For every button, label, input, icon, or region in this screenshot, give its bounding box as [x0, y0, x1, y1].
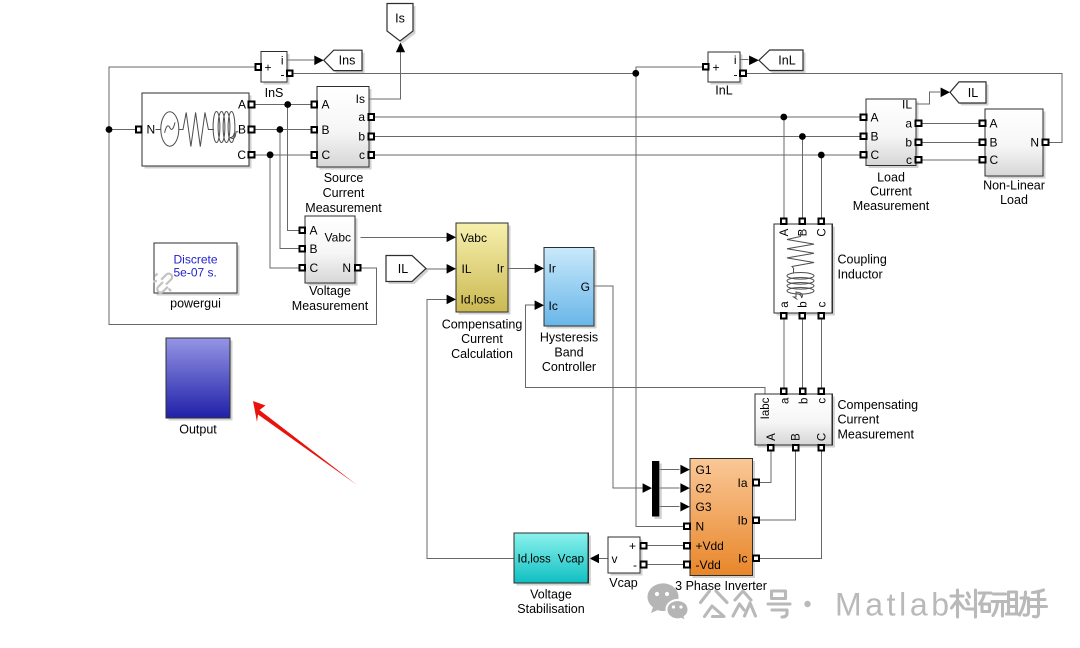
block Source Current Measurement: [317, 87, 372, 170]
svg-text:b: b: [798, 398, 810, 404]
svg-text:a: a: [779, 301, 791, 308]
svg-text:Is: Is: [356, 92, 365, 106]
wire inverter Ic up to CCM C: [759, 451, 822, 559]
watermark Matlab: [835, 587, 953, 623]
arrowhead Hysteresis Ic: [535, 300, 544, 310]
port square NLL A: [980, 121, 986, 127]
svg-text:Voltage: Voltage: [530, 588, 572, 602]
svg-text:IL: IL: [968, 86, 978, 100]
wire Coupling Inductor b down to CCM b: [801, 318, 803, 388]
label InL: [715, 83, 732, 97]
arrowhead demux input: [643, 483, 652, 493]
wire Coupling Inductor a down to CCM a: [783, 318, 785, 388]
port square inverter Ib: [753, 517, 759, 523]
port square inverter Ia: [753, 480, 759, 486]
label Hysteresis Band Controller: [540, 331, 598, 374]
port square Coupling A: [781, 218, 787, 224]
watermark wechat icon: [648, 583, 689, 621]
port square inverter Ic: [753, 556, 759, 562]
svg-text:c: c: [816, 398, 828, 404]
arrowhead IL goto tag: [941, 88, 950, 98]
svg-text:Ib: Ib: [737, 514, 747, 528]
Coupling Inductor internal resistor (vertical zigzag): [787, 232, 814, 269]
wire phase B: source B to Source Current Measurement B: [254, 129, 314, 131]
svg-text:Vcap: Vcap: [609, 576, 638, 590]
junction phase b drop: [799, 133, 806, 140]
port square InL -: [740, 70, 746, 76]
svg-text:Hysteresis: Hysteresis: [540, 331, 598, 345]
svg-text:Ins: Ins: [339, 54, 356, 68]
svg-text:G3: G3: [696, 500, 712, 514]
port square LCM b: [916, 140, 922, 146]
svg-text:c: c: [906, 153, 912, 167]
svg-text:-: -: [734, 67, 738, 81]
wire LCM c to Non-Linear Load C: [921, 159, 979, 161]
wire Vcap - to inverter -Vdd: [646, 564, 684, 566]
wire phase C: source C to Source Current Measurement C: [254, 154, 314, 156]
svg-text:Current: Current: [870, 185, 912, 199]
svg-text:IL: IL: [462, 262, 472, 276]
block InS current measurement: [261, 52, 290, 85]
svg-text:Discrete: Discrete: [174, 253, 218, 267]
block 3 Phase Inverter: [690, 459, 755, 579]
port square CCM B: [793, 445, 799, 451]
port square Coupling C: [819, 218, 825, 224]
svg-text:Iabc: Iabc: [760, 397, 772, 419]
port square source A: [249, 102, 255, 108]
svg-text:C: C: [310, 261, 319, 275]
wire InS i output to Ins goto tag: [287, 59, 314, 61]
port square CCM C: [819, 445, 825, 451]
port square VM C: [300, 265, 306, 271]
svg-text:a: a: [358, 110, 365, 124]
svg-text:b: b: [358, 130, 365, 144]
wire inverter Ia up to CCM A: [759, 451, 771, 483]
port square InS -: [287, 71, 293, 77]
svg-text:-: -: [281, 68, 285, 82]
wire phase c drop to Coupling Inductor C: [820, 155, 822, 219]
svg-text:B: B: [238, 123, 246, 137]
wire Coupling Inductor c down to CCM c: [820, 318, 822, 388]
svg-text:G: G: [581, 280, 590, 294]
port square inverter -Vdd: [684, 562, 690, 568]
port square LCM A: [861, 115, 867, 121]
arrowhead CCC IL: [447, 264, 456, 274]
wire CCM Iabc to Hysteresis Ic input: [526, 305, 765, 394]
svg-text:G1: G1: [696, 463, 712, 477]
port square Vcap +: [641, 543, 647, 549]
svg-text:Voltage: Voltage: [309, 284, 351, 298]
wire demux out 2 to inverter G2: [659, 487, 679, 489]
block InL current measurement: [708, 52, 743, 85]
wire phase b rail: SCM b to Load Current Measurement B: [374, 136, 861, 138]
port square CCM A: [768, 445, 774, 451]
svg-text:a: a: [905, 117, 912, 131]
wire neutral: junction down to bottom rail and to Voltage Measurement N: [109, 130, 377, 325]
port square Coupling B: [800, 218, 806, 224]
wire CCC Ir to Hysteresis Ir input: [508, 267, 538, 269]
arrowhead Voltage Stabilisation Vcap: [590, 554, 599, 564]
svg-text:IL: IL: [398, 262, 408, 276]
wire phase c rail: SCM c to Load Current Measurement C: [374, 154, 861, 156]
svg-text:Current: Current: [323, 186, 365, 200]
port square SCM c: [369, 152, 375, 158]
arrowhead CCC Vabc: [447, 233, 456, 243]
annotation red arrow: [253, 401, 357, 485]
label powergui: [170, 297, 221, 311]
port square inverter +Vdd: [684, 543, 690, 549]
goto tag InL: [759, 50, 806, 73]
arrowhead InL tag: [749, 56, 759, 66]
svg-text:N: N: [1030, 136, 1039, 150]
svg-text:Vcap: Vcap: [558, 554, 584, 566]
svg-text:Controller: Controller: [542, 360, 596, 374]
wire Vcap v output to Voltage Stabilisation Vcap input: [598, 558, 608, 560]
svg-text:i: i: [734, 53, 737, 67]
svg-text:C: C: [322, 148, 331, 162]
label Voltage Measurement: [292, 284, 369, 313]
port square LCM C: [861, 152, 867, 158]
label Coupling Inductor: [838, 252, 887, 281]
svg-text:Current: Current: [461, 332, 503, 346]
goto tag Ins: [324, 50, 365, 73]
arrowhead CCC Id,loss: [447, 295, 456, 305]
label Voltage Stabilisation: [517, 588, 584, 617]
svg-text:Current: Current: [838, 413, 880, 427]
svg-text:Stabilisation: Stabilisation: [517, 602, 584, 616]
svg-text:Coupling: Coupling: [838, 252, 887, 266]
svg-text:A: A: [779, 228, 791, 236]
port square CCM b: [800, 388, 806, 394]
svg-text:Vabc: Vabc: [325, 231, 351, 245]
port square VM N: [355, 265, 361, 271]
svg-text:A: A: [322, 98, 330, 112]
svg-text:N: N: [147, 123, 156, 137]
block Voltage Measurement: [305, 216, 358, 286]
label InS: [265, 86, 284, 100]
port square InL +: [703, 64, 709, 70]
svg-text:A: A: [871, 111, 879, 125]
from tag IL: [386, 256, 429, 285]
label 3 Phase Inverter: [675, 579, 767, 593]
svg-text:v: v: [612, 552, 618, 566]
wire phase a drop to Coupling Inductor A: [783, 117, 785, 219]
svg-text:Load: Load: [1000, 193, 1028, 207]
label Output: [179, 423, 217, 437]
svg-text:i: i: [281, 54, 284, 68]
svg-text:3 Phase Inverter: 3 Phase Inverter: [675, 579, 767, 593]
port square source N: [136, 127, 142, 133]
svg-text:Ic: Ic: [738, 552, 747, 566]
svg-text:B: B: [797, 228, 809, 236]
powergui broken link icon: [153, 274, 172, 293]
svg-text:Calculation: Calculation: [451, 347, 513, 361]
port square CCM a: [781, 388, 787, 394]
svg-text:Inductor: Inductor: [838, 268, 883, 282]
svg-text:Compensating: Compensating: [838, 398, 919, 412]
port square source B: [249, 127, 255, 133]
svg-text:Measurement: Measurement: [853, 199, 930, 213]
svg-text:C: C: [871, 148, 880, 162]
svg-text:B: B: [871, 130, 879, 144]
arrowhead Hysteresis Ir: [535, 264, 544, 274]
block powergui: [154, 243, 240, 296]
svg-text:Ir: Ir: [497, 262, 504, 276]
watermark text: [701, 590, 1047, 617]
port square InS +: [256, 64, 262, 70]
port square NLL N: [1043, 140, 1049, 146]
svg-text:-: -: [633, 558, 637, 572]
svg-text:Source: Source: [324, 171, 364, 185]
svg-text:B: B: [322, 123, 330, 137]
svg-text:C: C: [237, 148, 246, 162]
svg-text:+Vdd: +Vdd: [696, 539, 724, 553]
wire Hysteresis G to demux input: [594, 286, 643, 488]
block Coupling Inductor: [774, 224, 835, 316]
block Output scope: [166, 338, 233, 421]
port square Coupling c: [819, 313, 825, 319]
port square Coupling b: [800, 313, 806, 319]
wire phase A: source A to Source Current Measurement A: [254, 104, 314, 106]
wire Vcap + to inverter +Vdd: [646, 545, 684, 547]
port square CCM c: [818, 388, 824, 394]
wire neutral: jog up into InL +: [636, 67, 703, 73]
svg-text:c: c: [816, 301, 828, 307]
svg-text:Vabc: Vabc: [461, 231, 487, 245]
svg-text:A: A: [990, 117, 998, 131]
goto tag IL: [950, 82, 989, 106]
wire LCM IL output to IL goto tag: [916, 92, 940, 104]
junction node on neutral at source N: [106, 126, 113, 133]
wire neutral: InS - output across top: [292, 72, 636, 74]
svg-text:+: +: [713, 60, 720, 74]
source internal resistor: [180, 113, 210, 147]
svg-text:a: a: [780, 397, 792, 404]
arrowhead Is tag (up): [396, 42, 405, 52]
block three-phase source: [142, 93, 252, 169]
svg-text:Load: Load: [877, 170, 905, 184]
svg-text:+: +: [265, 61, 272, 75]
wire phase a rail: SCM a to Load Current Measurement A: [374, 116, 861, 118]
wire inverter Ib up to CCM B: [759, 451, 796, 520]
port square SCM A: [312, 102, 318, 108]
svg-text:Ir: Ir: [549, 262, 556, 276]
svg-text:IL: IL: [902, 97, 912, 111]
port square Vcap -: [641, 562, 647, 568]
svg-text:C: C: [990, 153, 999, 167]
demux: [652, 461, 662, 519]
svg-text:Id,loss: Id,loss: [461, 293, 496, 307]
svg-text:InS: InS: [265, 86, 284, 100]
goto tag Is: [387, 4, 416, 44]
source internal inductor: [210, 112, 239, 143]
junction phase B tap: [277, 126, 284, 133]
arrowhead inverter G2: [680, 483, 689, 493]
svg-text:b: b: [797, 301, 809, 307]
block Non-Linear Load: [985, 109, 1046, 179]
svg-text:N: N: [696, 520, 705, 534]
svg-text:A: A: [766, 433, 778, 441]
wire VM Vabc to CCC Vabc input: [360, 236, 449, 238]
svg-text:B: B: [990, 136, 998, 150]
svg-text:Non-Linear: Non-Linear: [983, 179, 1045, 193]
wire LCM a to Non-Linear Load A: [921, 122, 979, 124]
arrowhead Ins tag: [314, 56, 323, 66]
wire IL from tag to CCC IL input: [426, 268, 450, 270]
svg-text:Ic: Ic: [549, 299, 558, 313]
svg-text:G2: G2: [696, 481, 712, 495]
svg-text:Measurement: Measurement: [305, 201, 382, 215]
svg-text:InL: InL: [778, 54, 795, 68]
svg-text:Id,loss: Id,loss: [518, 554, 551, 566]
svg-text:Is: Is: [395, 12, 405, 26]
label Non-Linear Load: [983, 179, 1045, 208]
svg-text:Ia: Ia: [737, 476, 747, 490]
port square NLL B: [980, 140, 986, 146]
svg-text:Measurement: Measurement: [292, 299, 369, 313]
wire demux out 3 to inverter G3: [659, 506, 679, 508]
svg-text:A: A: [238, 98, 246, 112]
Coupling Inductor internal coil (vertical): [787, 269, 814, 300]
junction phase A tap: [284, 101, 291, 108]
block Load Current Measurement: [866, 97, 919, 168]
port square source C: [249, 152, 255, 158]
wire InL i output to InL goto tag: [740, 59, 749, 61]
wire Voltage Stabilisation Id,loss to CCC Id,loss input: [427, 299, 514, 558]
svg-text:B: B: [310, 242, 318, 256]
port square LCM a: [916, 121, 922, 127]
block Voltage Stabilisation: [514, 533, 591, 586]
port square inverter N: [684, 524, 690, 530]
wire phase C tap to Voltage Measurement C: [270, 155, 300, 268]
junction phase a drop: [780, 114, 787, 121]
svg-text:powergui: powergui: [170, 297, 221, 311]
label Compensating Current Measurement: [838, 398, 919, 441]
port square SCM C: [312, 152, 318, 158]
label Source Current Measurement: [305, 171, 382, 215]
junction phase c drop: [818, 152, 825, 159]
label Compensating Current Calculation: [442, 318, 523, 361]
port square Coupling a: [781, 313, 787, 319]
svg-text:Measurement: Measurement: [838, 427, 915, 441]
port square SCM b: [369, 134, 375, 140]
wire LCM b to Non-Linear Load B: [921, 141, 979, 143]
wire neutral: down to 3 Phase Inverter N: [636, 73, 684, 526]
svg-text:B: B: [791, 433, 803, 441]
port square LCM c: [916, 157, 922, 163]
wire Is output to Is goto tag: [369, 52, 401, 100]
svg-text:A: A: [310, 224, 318, 238]
wire neutral: InL - to Non-Linear Load N: [746, 73, 1062, 142]
watermark separator dot: [804, 601, 810, 607]
port square VM A: [300, 228, 306, 234]
source internal AC symbol: [156, 112, 181, 146]
label Vcap: [609, 576, 638, 590]
port square VM B: [300, 246, 306, 252]
svg-text:5e-07 s.: 5e-07 s.: [174, 266, 217, 280]
svg-text:C: C: [816, 433, 828, 441]
wire phase A tap to Voltage Measurement A: [288, 105, 300, 231]
svg-text:Matlab: Matlab: [835, 587, 953, 623]
arrowhead inverter G3: [680, 502, 689, 512]
port square LCM B: [861, 133, 867, 139]
svg-text:b: b: [905, 136, 912, 150]
port square SCM B: [312, 127, 318, 133]
svg-text:-Vdd: -Vdd: [696, 558, 721, 572]
svg-text:Output: Output: [179, 423, 217, 437]
svg-text:C: C: [816, 228, 828, 236]
svg-text:InL: InL: [715, 83, 732, 97]
arrowhead inverter G1: [680, 465, 689, 475]
svg-text:N: N: [342, 261, 351, 275]
wire phase b drop to Coupling Inductor B: [801, 137, 803, 219]
wire demux out 1 to inverter G1: [659, 469, 679, 471]
svg-text:c: c: [359, 148, 365, 162]
junction node neutral at x=635.8: [632, 70, 639, 77]
port square NLL C: [980, 157, 986, 163]
wire neutral: source N to InS +: [109, 67, 256, 130]
svg-text:Compensating: Compensating: [442, 318, 523, 332]
block Compensating Current Measurement: [755, 394, 835, 448]
wire phase B tap to Voltage Measurement B: [280, 130, 300, 249]
block Hysteresis Band Controller: [544, 248, 597, 329]
svg-text:Band: Band: [554, 345, 583, 359]
block Compensating Current Calculation: [456, 223, 511, 315]
svg-text:+: +: [629, 539, 636, 553]
port square SCM a: [369, 114, 375, 120]
junction phase C tap: [267, 151, 274, 158]
label Load Current Measurement: [853, 170, 930, 213]
block Vcap voltage measurement: [608, 537, 643, 576]
